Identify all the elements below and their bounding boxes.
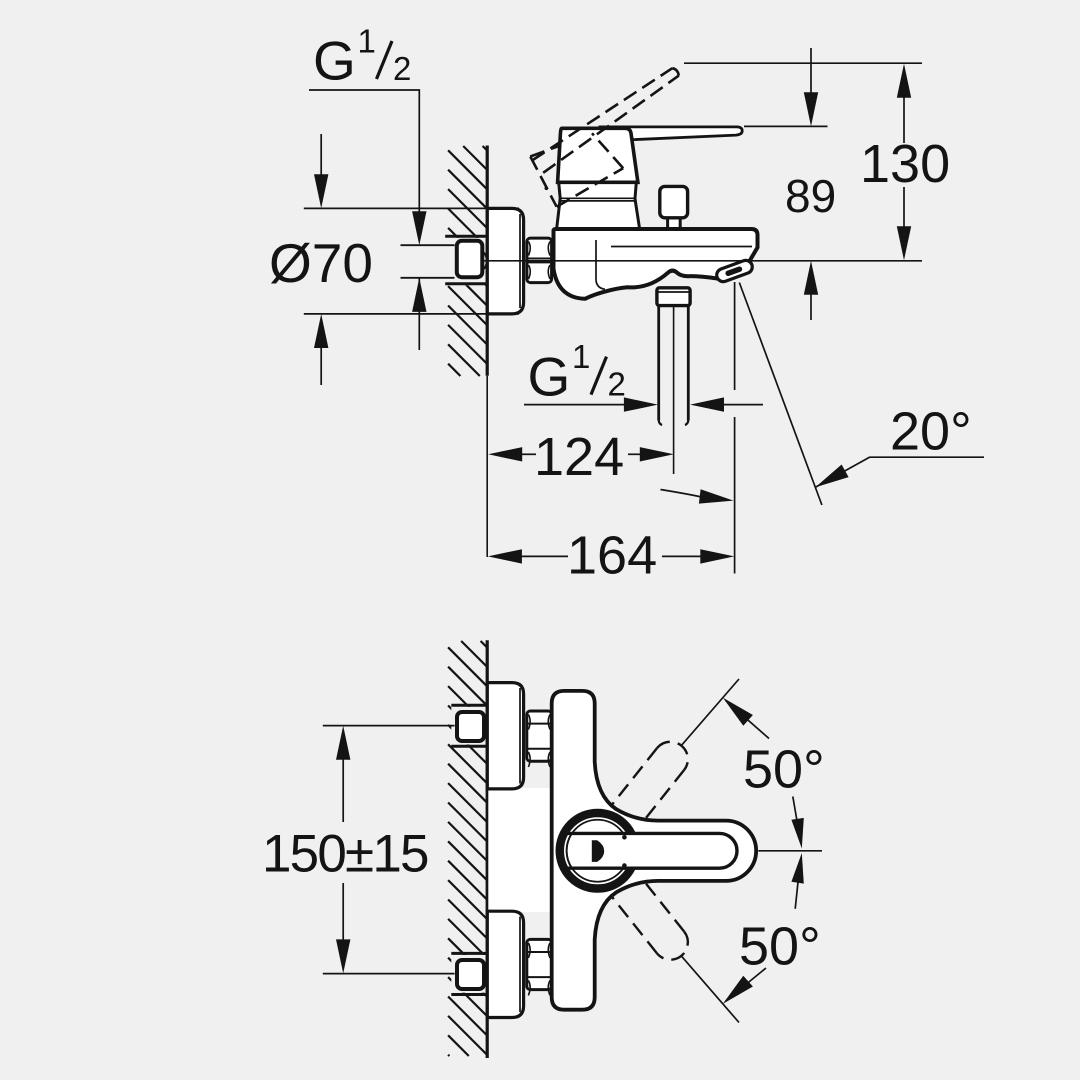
150 extension line upper: [323, 725, 455, 727]
diverter knob: [668, 215, 681, 229]
extension line 130 top: [684, 62, 922, 64]
raised handle position (dashed): [532, 68, 672, 160]
svg-text:1: 1: [572, 338, 590, 375]
svg-text:150±15: 150±15: [262, 825, 428, 884]
svg-text:20°: 20°: [890, 402, 972, 462]
upper 50 deg leg line: [681, 679, 739, 746]
dome inner ring visible arc across lever: [567, 834, 572, 869]
lever index dots: [622, 835, 627, 840]
spout angle 20 deg reference line: [739, 283, 822, 506]
svg-text:50°: 50°: [743, 740, 825, 800]
hex nut upper (plan): [527, 711, 552, 761]
svg-text:2: 2: [393, 50, 411, 87]
mixer outline (plan view): body bar, dome, lever: [552, 691, 756, 1010]
wall escutcheon (side view): [487, 208, 523, 314]
hose connection nut: [657, 288, 690, 306]
wall edge line (side view): [486, 146, 489, 376]
dimension 124: [488, 447, 522, 461]
handle swing position upper 50 deg (dashed): [606, 748, 656, 811]
handle skirt (horizontal position): [558, 128, 638, 182]
wall recesses for unions (plan view): [451, 707, 486, 745]
S-union square upper (plan): [457, 712, 484, 741]
escutcheon upper (plan): [487, 683, 523, 789]
svg-text:1: 1: [358, 22, 376, 59]
S-union square (side view): [457, 241, 483, 277]
hex nut lower (plan): [527, 939, 552, 989]
angle 20 deg arc arrows: [661, 490, 707, 499]
svg-text:130: 130: [860, 134, 950, 194]
body inner edge: [596, 240, 605, 289]
dimension 150 +/- 15: [336, 726, 350, 760]
wall hatching (side view): [448, 146, 487, 376]
wall hatching (plan view): [448, 641, 487, 1056]
body recess band between escutcheons (plan): [488, 788, 553, 912]
wall edge line (plan view): [486, 640, 489, 1058]
dimension 130: [903, 98, 905, 144]
shower hose tube: [657, 306, 660, 421]
upper 50 deg arrow at reference line: [793, 797, 800, 837]
axis centerline (side view): [483, 260, 922, 262]
cartridge collar and neck: [557, 183, 640, 228]
escutcheon lower (plan): [487, 911, 523, 1017]
svg-text:G: G: [313, 30, 356, 92]
handle swing position lower 50 deg (dashed): [634, 868, 685, 931]
angle reference line (plan): [758, 850, 822, 852]
upper 50 deg arc arrow: [726, 701, 769, 739]
supply pipe stub (side view): [401, 244, 455, 246]
hex nut (side view): [527, 238, 552, 283]
spout aerator: [715, 259, 754, 284]
svg-text:164: 164: [567, 526, 657, 586]
lever top face (plan): [570, 833, 737, 868]
svg-text:89: 89: [785, 170, 836, 222]
extension line blade top: [744, 125, 828, 127]
dimension G 1/2 hose: [524, 404, 624, 406]
S-union square lower (plan): [457, 960, 484, 989]
body shading line: [611, 246, 752, 248]
dimension 89: [810, 48, 812, 93]
mixer body and spout: [554, 229, 758, 299]
leader G 1/2 wall: [309, 90, 419, 213]
extension line spout tip: [734, 282, 736, 390]
svg-text:124: 124: [534, 427, 624, 487]
cartridge dome inner ring: [567, 820, 629, 882]
handle lever blade (horizontal position): [600, 127, 742, 140]
150 extension line lower: [323, 973, 455, 975]
dimension 164: [488, 549, 522, 563]
lower 50 deg leg line: [681, 956, 739, 1023]
lower 50 deg arc arrow: [726, 968, 766, 1001]
svg-text:Ø70: Ø70: [269, 232, 373, 294]
cartridge dome outer ring: [560, 813, 636, 889]
wall recess for union (side view): [445, 238, 487, 285]
hose centerline: [673, 307, 675, 474]
lower 50 deg arrow at reference line: [795, 865, 800, 909]
svg-text:50°: 50°: [739, 917, 821, 977]
dimension lines D70: [304, 207, 519, 209]
lever logo mark: [592, 840, 604, 862]
svg-text:2: 2: [608, 366, 626, 403]
svg-text:G: G: [528, 345, 571, 407]
